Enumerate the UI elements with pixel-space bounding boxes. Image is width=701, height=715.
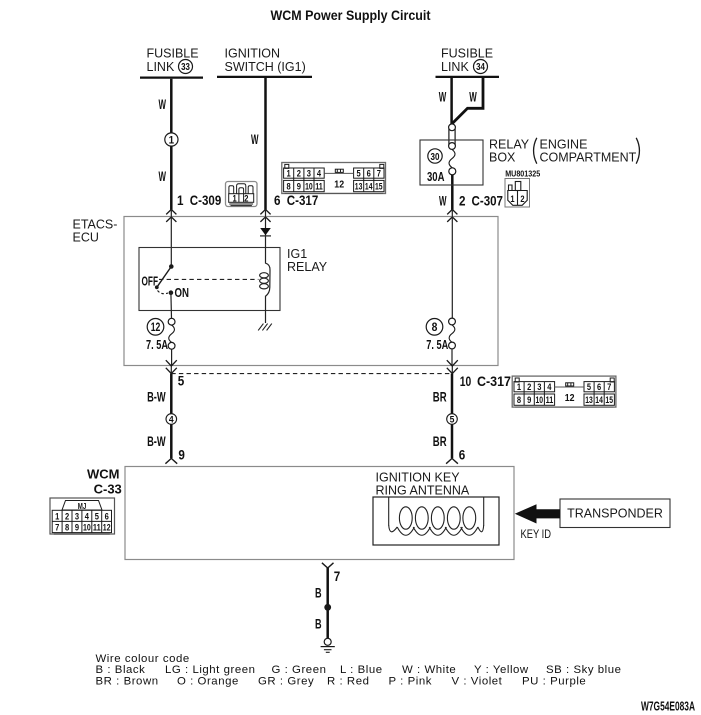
wire BR pin 10 to pin 6 <box>451 374 454 459</box>
svg-text:34: 34 <box>476 62 485 73</box>
IG1 relay label <box>287 247 328 274</box>
fuse 8 <box>449 318 456 349</box>
svg-text:9: 9 <box>75 522 79 533</box>
svg-text:SB : Sky blue: SB : Sky blue <box>546 664 622 676</box>
connector C-309 icon <box>226 182 258 207</box>
svg-text:4: 4 <box>317 169 322 180</box>
svg-text:COMPARTMENT: COMPARTMENT <box>540 151 637 165</box>
wire switch to fuse 12 <box>170 293 173 319</box>
connector C-317 junction chevrons <box>260 209 270 222</box>
svg-text:W: W <box>469 89 477 105</box>
wire W right branch fusible link 34 <box>452 78 483 124</box>
chassis ground <box>258 324 272 331</box>
svg-text:30: 30 <box>431 151 440 163</box>
WCM label C-33 <box>87 466 122 496</box>
svg-text:1: 1 <box>510 194 515 205</box>
wire B-W pin 5 to pin 9 <box>170 374 173 459</box>
svg-text:10: 10 <box>460 374 472 389</box>
svg-text:LINK: LINK <box>147 60 175 74</box>
svg-text:ON: ON <box>175 285 190 300</box>
svg-text:5: 5 <box>357 169 362 180</box>
svg-text:7: 7 <box>55 522 59 533</box>
svg-text:LINK: LINK <box>441 60 469 74</box>
svg-text:W: W <box>159 168 167 184</box>
svg-text:ENGINE: ENGINE <box>540 138 588 152</box>
relay switch ON contact <box>169 290 174 295</box>
svg-text:BR : Brown: BR : Brown <box>96 675 159 687</box>
connector C-317 dashed boundary <box>171 373 452 375</box>
svg-text:4: 4 <box>85 511 90 522</box>
svg-text:O : Orange: O : Orange <box>177 675 239 687</box>
svg-text:ETACS-: ETACS- <box>73 218 118 232</box>
svg-text:WCM: WCM <box>87 466 120 481</box>
svg-text:5: 5 <box>450 415 455 426</box>
svg-text:KEY ID: KEY ID <box>521 527 552 541</box>
relay switch arm OFF <box>157 267 172 288</box>
svg-text:2: 2 <box>244 193 248 204</box>
svg-text:9: 9 <box>297 182 301 193</box>
svg-text:W: W <box>251 131 259 147</box>
relay actuation dashed link <box>159 278 259 280</box>
fusible link element 30 <box>449 124 456 175</box>
connector C-307 junction chevrons <box>447 209 457 222</box>
svg-text:8: 8 <box>432 320 438 334</box>
svg-text:WCM Power Supply Circuit: WCM Power Supply Circuit <box>271 8 431 23</box>
svg-text:W7G54E083A: W7G54E083A <box>641 700 695 714</box>
wire B to ground <box>326 568 329 638</box>
pin 10 chevrons <box>447 360 458 373</box>
ETACS-ECU box <box>124 217 498 366</box>
svg-text:12: 12 <box>103 522 111 533</box>
svg-text:BOX: BOX <box>489 151 516 165</box>
svg-text:G : Green: G : Green <box>272 664 327 676</box>
wire W left branch fusible link 34 <box>450 78 453 124</box>
svg-text:IG1: IG1 <box>287 247 307 261</box>
svg-text:R : Red: R : Red <box>327 675 369 687</box>
junction node <box>324 604 331 611</box>
ETACS-ECU label <box>73 218 118 245</box>
connector C-33 icon <box>50 498 115 534</box>
svg-text:RELAY: RELAY <box>287 260 328 274</box>
wire colour code legend <box>96 653 622 688</box>
svg-text:30A: 30A <box>427 169 445 184</box>
svg-text:1: 1 <box>233 193 238 204</box>
svg-text:2: 2 <box>520 194 524 205</box>
svg-text:11: 11 <box>315 182 323 193</box>
pin 6 fork <box>446 458 458 463</box>
svg-text:B: B <box>315 584 322 600</box>
svg-text:2: 2 <box>297 169 301 180</box>
svg-text:3: 3 <box>307 169 311 180</box>
svg-text:15: 15 <box>375 182 383 193</box>
relay box <box>420 140 483 185</box>
key id signal arrow <box>515 504 560 523</box>
svg-text:C-309: C-309 <box>190 193 222 208</box>
wire to relay switch <box>170 210 172 267</box>
svg-text:C-317: C-317 <box>477 374 511 389</box>
svg-text:3: 3 <box>75 511 79 522</box>
svg-text:6: 6 <box>367 169 371 180</box>
IG1 relay box <box>139 248 280 311</box>
svg-text:6: 6 <box>105 511 109 522</box>
svg-text:B : Black: B : Black <box>96 664 146 676</box>
relay switch common node <box>169 264 174 269</box>
svg-text:33: 33 <box>181 62 190 73</box>
svg-text:B-W: B-W <box>147 389 166 405</box>
ignition key ring antenna box <box>373 497 499 545</box>
svg-text:7: 7 <box>377 169 381 180</box>
relay coil L1 <box>260 263 270 296</box>
svg-text:2: 2 <box>459 193 466 208</box>
svg-text:1: 1 <box>169 135 175 147</box>
connector C-317 icon <box>282 163 386 194</box>
svg-text:RELAY: RELAY <box>489 138 530 152</box>
svg-text:10: 10 <box>305 182 313 193</box>
svg-text:FUSIBLE: FUSIBLE <box>441 47 493 61</box>
svg-text:MU801325: MU801325 <box>505 168 540 178</box>
wire W ignition switch to C-317 <box>264 78 267 210</box>
svg-text:C-317: C-317 <box>287 193 319 208</box>
svg-text:5: 5 <box>95 511 100 522</box>
inline connector 1 <box>165 133 178 147</box>
pin 7 fork <box>322 563 334 568</box>
svg-text:Y : Yellow: Y : Yellow <box>474 664 529 676</box>
svg-text:14: 14 <box>365 182 373 193</box>
svg-text:2: 2 <box>65 511 69 522</box>
svg-text:IGNITION KEY: IGNITION KEY <box>376 471 461 485</box>
wire coil to ground <box>265 296 267 323</box>
svg-text:MJ: MJ <box>78 502 87 511</box>
fuse number 8 <box>426 319 443 336</box>
svg-text:4: 4 <box>169 415 174 426</box>
svg-text:5: 5 <box>178 373 185 388</box>
svg-text:LG : Light green: LG : Light green <box>165 664 256 676</box>
svg-text:ECU: ECU <box>73 231 99 245</box>
svg-text:8: 8 <box>65 522 69 533</box>
relay switch throw arc <box>158 291 169 294</box>
wire C-307 to fuse 8 <box>451 210 453 319</box>
svg-text:1: 1 <box>55 511 60 522</box>
connector C-309 junction chevrons <box>166 209 176 222</box>
svg-text:W : White: W : White <box>402 664 456 676</box>
svg-text:9: 9 <box>178 447 185 462</box>
inline connector 4 <box>166 414 177 426</box>
svg-text:P : Pink: P : Pink <box>389 675 432 687</box>
svg-text:PU : Purple: PU : Purple <box>522 675 586 687</box>
svg-text:BR: BR <box>433 389 447 405</box>
svg-text:IGNITION: IGNITION <box>225 47 281 61</box>
svg-text:BR: BR <box>433 433 447 449</box>
svg-text:11: 11 <box>93 522 101 533</box>
ignition switch (IG1) <box>217 47 312 77</box>
svg-text:RING ANTENNA: RING ANTENNA <box>376 484 470 498</box>
wire fuse 8 to pin 10 <box>451 349 453 374</box>
connector C-307 icon MU801325 <box>505 168 540 207</box>
svg-text:OFF: OFF <box>142 273 159 288</box>
svg-text:12: 12 <box>151 320 161 334</box>
wire fuse 12 to pin 5 <box>170 349 172 373</box>
inline connector 5 <box>447 414 458 426</box>
ignition key ring antenna label <box>376 471 470 498</box>
svg-text:B-W: B-W <box>147 433 166 449</box>
svg-text:Wire colour code: Wire colour code <box>96 653 190 665</box>
fuse number 12 <box>147 319 164 336</box>
svg-text:6: 6 <box>459 447 466 462</box>
svg-text:12: 12 <box>334 178 344 190</box>
WCM box <box>125 467 514 560</box>
pin 5 chevrons <box>166 360 177 373</box>
svg-text:W: W <box>159 96 167 112</box>
svg-text:1: 1 <box>177 193 184 208</box>
svg-text:7. 5A: 7. 5A <box>146 338 168 352</box>
svg-text:W: W <box>439 89 447 105</box>
svg-text:TRANSPONDER: TRANSPONDER <box>567 507 663 521</box>
svg-text:13: 13 <box>355 182 363 193</box>
svg-text:7. 5A: 7. 5A <box>426 338 448 352</box>
fusible link 34 <box>436 47 500 77</box>
svg-text:L : Blue: L : Blue <box>340 664 383 676</box>
svg-text:GR : Grey: GR : Grey <box>258 675 314 687</box>
fusible link 33 <box>140 47 203 78</box>
svg-text:SWITCH (IG1): SWITCH (IG1) <box>225 60 306 74</box>
ground <box>321 638 335 652</box>
svg-text:10: 10 <box>83 522 91 533</box>
svg-text:C-33: C-33 <box>94 482 122 497</box>
wire W fusible link 33 to C-309 <box>170 79 173 210</box>
svg-text:1: 1 <box>287 169 292 180</box>
wire fusible link to C-307 <box>451 175 454 210</box>
svg-text:C-307: C-307 <box>472 193 504 208</box>
relay box label <box>489 138 639 165</box>
svg-text:6: 6 <box>274 193 281 208</box>
svg-text:FUSIBLE: FUSIBLE <box>147 47 199 61</box>
transponder box <box>560 499 670 528</box>
diode D1 <box>260 228 271 236</box>
wire ignition to relay coil <box>265 210 267 264</box>
svg-text:B: B <box>315 616 322 632</box>
svg-text:8: 8 <box>287 182 291 193</box>
antenna coil <box>389 498 484 536</box>
svg-text:V : Violet: V : Violet <box>452 675 503 687</box>
svg-text:7: 7 <box>334 569 341 584</box>
pin 9 fork <box>165 458 177 463</box>
fuse 12 <box>168 318 175 349</box>
connector C-317 icon lower <box>512 376 616 407</box>
svg-text:W: W <box>439 192 447 208</box>
